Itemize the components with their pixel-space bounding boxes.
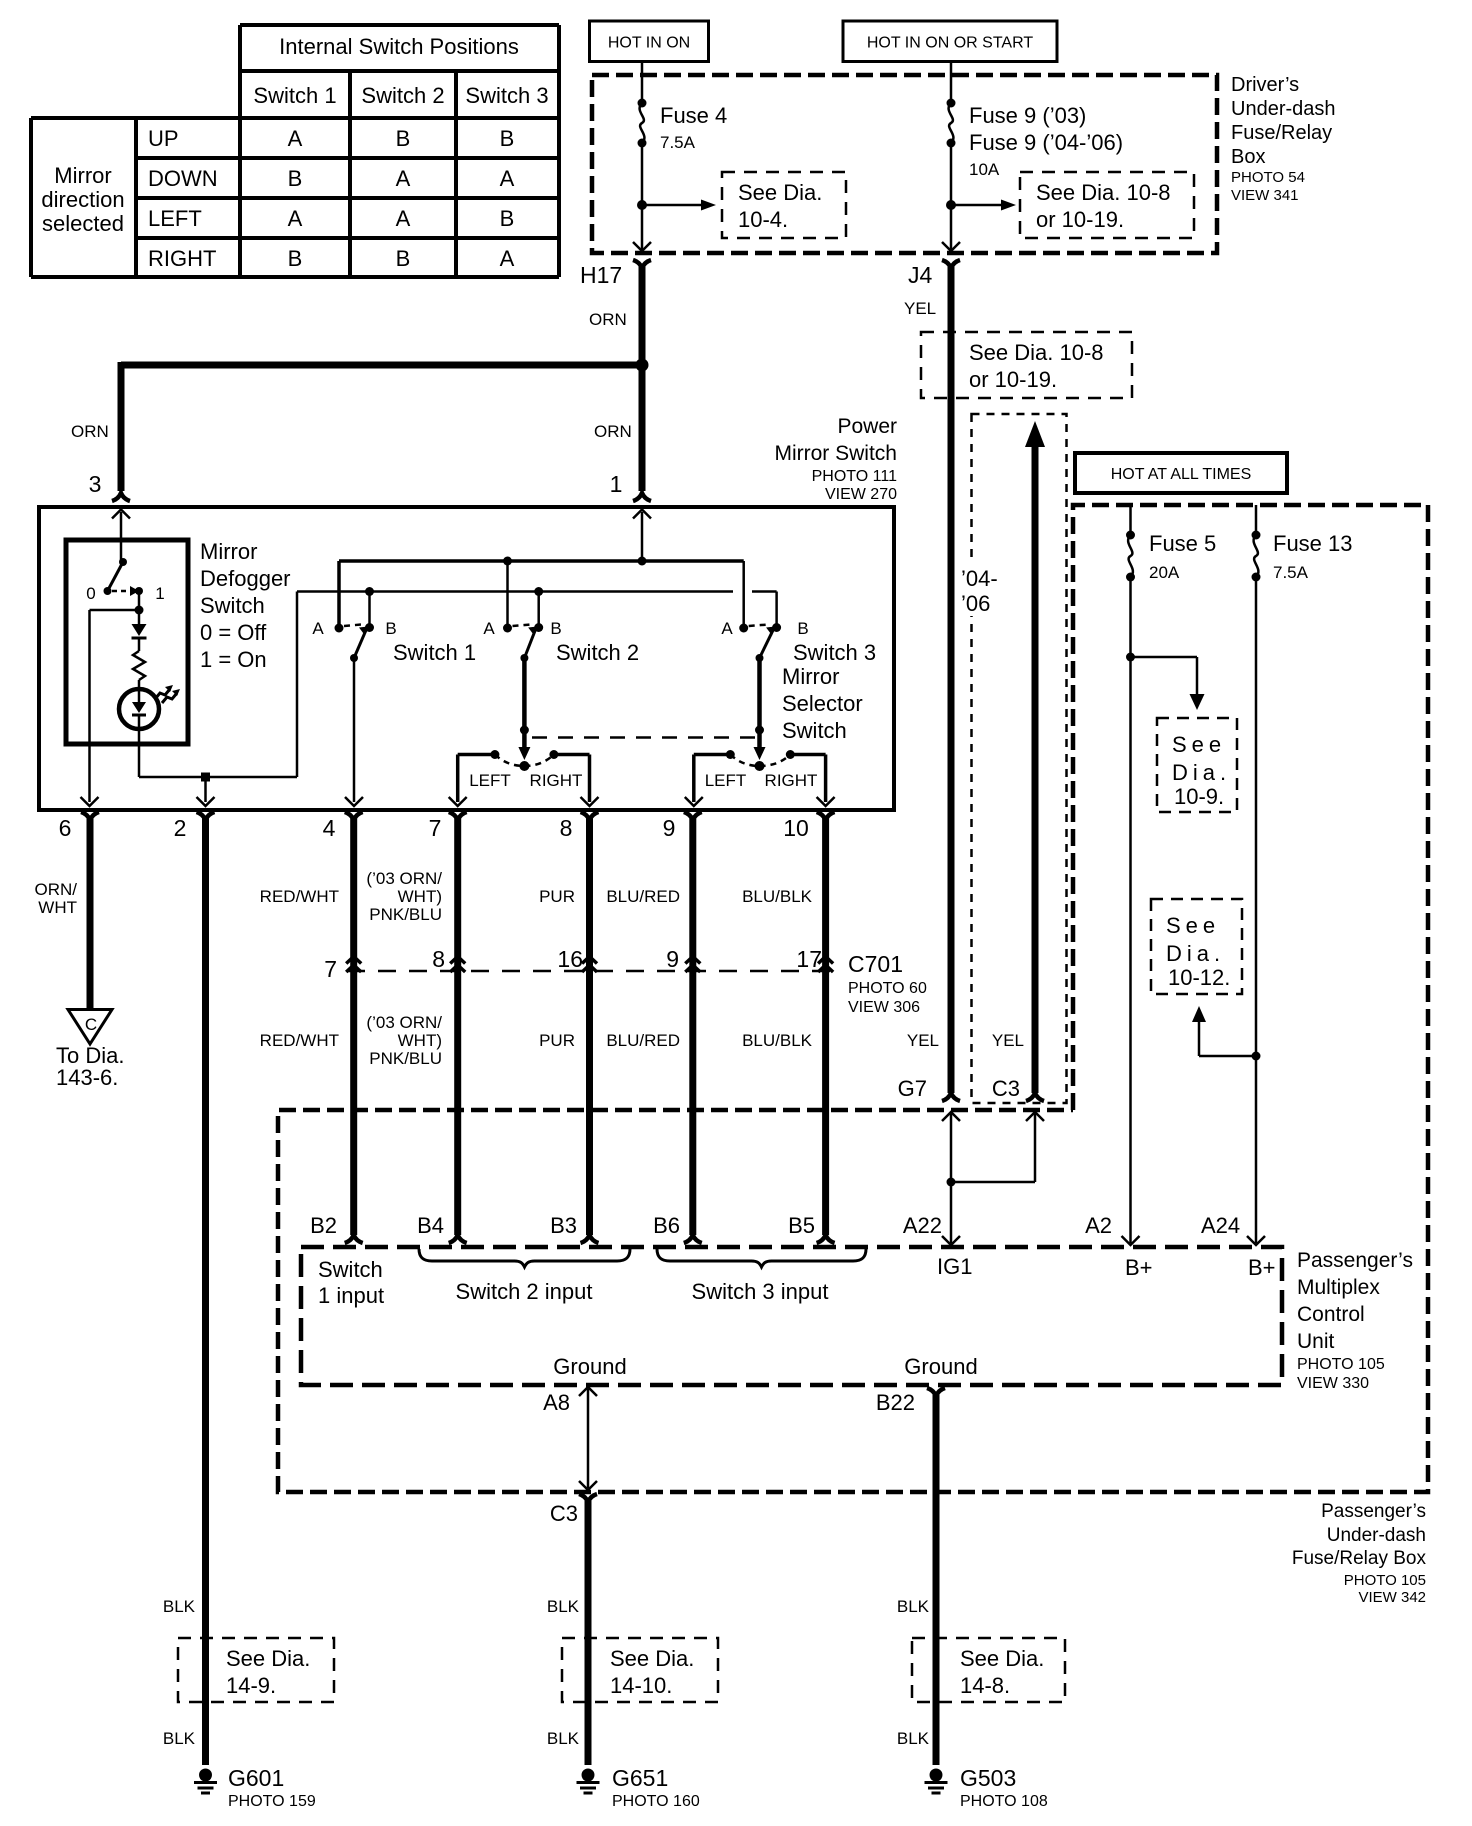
svg-text:PHOTO 160: PHOTO 160 [612,1793,700,1810]
svg-text:See: See [1166,913,1220,938]
svg-text:Fuse/Relay: Fuse/Relay [1231,122,1332,144]
svg-text:PHOTO 159: PHOTO 159 [228,1793,316,1810]
svg-text:Unit: Unit [1297,1330,1335,1353]
svg-text:VIEW 306: VIEW 306 [848,999,920,1016]
svg-text:B6: B6 [653,1213,680,1238]
svg-text:ORN: ORN [589,310,627,329]
svg-text:10-4.: 10-4. [738,207,788,232]
svg-text:(’03 ORN/: (’03 ORN/ [366,869,442,888]
svg-text:Control: Control [1297,1303,1365,1326]
svg-text:HOT IN ON OR START: HOT IN ON OR START [867,35,1033,52]
svg-text:Switch: Switch [782,718,847,743]
svg-text:YEL: YEL [904,299,936,318]
svg-text:LEFT: LEFT [469,771,511,790]
svg-text:Switch 3: Switch 3 [465,83,548,108]
svg-text:or 10-19.: or 10-19. [969,367,1057,392]
svg-text:B: B [288,246,303,271]
svg-text:PUR: PUR [539,1031,575,1050]
svg-text:PHOTO 111: PHOTO 111 [812,468,897,485]
svg-text:16: 16 [557,946,583,972]
svg-text:’04-: ’04- [961,566,998,591]
svg-text:LEFT: LEFT [148,206,202,231]
svg-text:PUR: PUR [539,887,575,906]
svg-text:14-10.: 14-10. [610,1673,672,1698]
svg-text:2: 2 [174,815,187,841]
svg-text:G651: G651 [612,1765,668,1791]
svg-text:Switch: Switch [200,593,265,618]
svg-text:17: 17 [796,946,822,972]
svg-text:Under-dash: Under-dash [1327,1525,1426,1546]
svg-text:VIEW 341: VIEW 341 [1231,187,1299,204]
svg-text:(’03 ORN/: (’03 ORN/ [366,1013,442,1032]
svg-text:BLU/BLK: BLU/BLK [742,887,813,906]
svg-text:See Dia.: See Dia. [738,180,822,205]
svg-text:7: 7 [429,815,442,841]
svg-text:RIGHT: RIGHT [765,771,818,790]
svg-text:Selector: Selector [782,691,863,716]
svg-text:Switch 3: Switch 3 [793,640,876,665]
svg-text:8: 8 [560,815,573,841]
svg-text:H17: H17 [580,262,622,288]
svg-text:Box: Box [1231,146,1265,168]
svg-text:Mirror: Mirror [200,539,257,564]
svg-text:Passenger’s: Passenger’s [1297,1249,1413,1272]
svg-text:Power: Power [837,415,897,438]
svg-text:Dia.: Dia. [1172,760,1231,785]
svg-text:B: B [500,206,515,231]
svg-text:143-6.: 143-6. [56,1065,118,1090]
svg-text:0 = Off: 0 = Off [200,620,267,645]
svg-text:A: A [396,166,411,191]
svg-text:WHT): WHT) [398,1031,442,1050]
svg-text:YEL: YEL [992,1031,1024,1050]
svg-text:A: A [288,206,303,231]
svg-text:BLK: BLK [547,1729,580,1748]
svg-text:10-9.: 10-9. [1174,784,1224,809]
svg-text:BLK: BLK [897,1597,930,1616]
svg-text:Fuse 9 (’04-’06): Fuse 9 (’04-’06) [969,130,1123,155]
svg-text:0: 0 [86,584,95,603]
svg-text:A22: A22 [903,1213,942,1238]
svg-text:HOT AT ALL TIMES: HOT AT ALL TIMES [1111,466,1252,483]
svg-text:B: B [288,166,303,191]
svg-text:BLK: BLK [163,1597,196,1616]
svg-text:10: 10 [783,815,809,841]
svg-text:ORN/: ORN/ [35,880,78,899]
svg-text:Ground: Ground [904,1354,977,1379]
svg-text:7: 7 [324,956,337,982]
svg-text:Under-dash: Under-dash [1231,98,1336,120]
svg-text:VIEW 330: VIEW 330 [1297,1375,1369,1392]
svg-text:Mirror: Mirror [782,664,839,689]
svg-text:See Dia. 10-8: See Dia. 10-8 [1036,180,1171,205]
svg-text:PHOTO 105: PHOTO 105 [1297,1356,1385,1373]
svg-text:’06: ’06 [961,591,990,616]
svg-text:A: A [721,619,733,638]
svg-text:Multiplex: Multiplex [1297,1276,1380,1299]
svg-text:RIGHT: RIGHT [148,246,216,271]
svg-text:B4: B4 [417,1213,444,1238]
svg-text:B: B [385,619,396,638]
svg-text:Internal Switch Positions: Internal Switch Positions [279,34,519,59]
svg-text:B: B [396,126,411,151]
svg-text:J4: J4 [908,262,933,288]
svg-text:IG1: IG1 [937,1254,972,1279]
svg-text:See Dia. 10-8: See Dia. 10-8 [969,340,1104,365]
svg-text:14-9.: 14-9. [226,1673,276,1698]
svg-text:A: A [500,166,515,191]
svg-text:PNK/BLU: PNK/BLU [369,905,442,924]
svg-text:A2: A2 [1085,1213,1112,1238]
svg-text:PNK/BLU: PNK/BLU [369,1049,442,1068]
svg-text:9: 9 [663,815,676,841]
svg-text:UP: UP [148,126,179,151]
svg-text:1: 1 [155,584,164,603]
svg-text:PHOTO 108: PHOTO 108 [960,1793,1048,1810]
svg-text:Switch 2: Switch 2 [361,83,444,108]
svg-text:RIGHT: RIGHT [530,771,583,790]
svg-text:BLK: BLK [897,1729,930,1748]
svg-text:C701: C701 [848,951,903,977]
svg-text:C3: C3 [992,1076,1020,1101]
svg-text:Fuse/Relay Box: Fuse/Relay Box [1292,1548,1427,1569]
svg-text:9: 9 [666,946,679,972]
svg-text:B+: B+ [1248,1255,1276,1280]
svg-text:YEL: YEL [907,1031,939,1050]
svg-text:direction: direction [41,187,124,212]
svg-text:7.5A: 7.5A [1273,563,1309,582]
svg-text:A: A [500,246,515,271]
svg-text:1 = On: 1 = On [200,647,267,672]
svg-text:PHOTO 60: PHOTO 60 [848,980,927,997]
svg-text:HOT IN ON: HOT IN ON [608,35,690,52]
svg-text:A24: A24 [1201,1213,1240,1238]
svg-text:1: 1 [610,471,623,497]
svg-text:3: 3 [89,471,102,497]
svg-text:Switch 2: Switch 2 [556,640,639,665]
svg-text:Ground: Ground [553,1354,626,1379]
svg-text:C: C [85,1015,97,1034]
svg-text:Switch 3 input: Switch 3 input [692,1279,829,1304]
svg-text:Switch 1: Switch 1 [393,640,476,665]
svg-text:ORN: ORN [594,422,632,441]
svg-text:Fuse 13: Fuse 13 [1273,531,1353,556]
svg-text:Switch: Switch [318,1257,383,1282]
svg-text:B2: B2 [310,1213,337,1238]
svg-text:DOWN: DOWN [148,166,218,191]
svg-text:Driver’s: Driver’s [1231,74,1299,96]
svg-text:B: B [500,126,515,151]
svg-text:A: A [396,206,411,231]
svg-text:PHOTO 54: PHOTO 54 [1231,169,1305,186]
svg-text:BLU/BLK: BLU/BLK [742,1031,813,1050]
svg-text:Fuse 4: Fuse 4 [660,103,727,128]
svg-text:WHT): WHT) [398,887,442,906]
svg-text:selected: selected [42,211,124,236]
svg-text:6: 6 [59,815,72,841]
svg-text:See Dia.: See Dia. [610,1646,694,1671]
svg-text:B: B [396,246,411,271]
svg-text:G503: G503 [960,1765,1016,1791]
svg-text:G7: G7 [898,1076,927,1101]
svg-text:PHOTO 105: PHOTO 105 [1344,1572,1426,1589]
svg-text:14-8.: 14-8. [960,1673,1010,1698]
svg-text:7.5A: 7.5A [660,133,696,152]
svg-text:Fuse 5: Fuse 5 [1149,531,1216,556]
svg-text:A: A [288,126,303,151]
svg-text:Mirror Switch: Mirror Switch [774,442,897,465]
svg-text:B+: B+ [1125,1255,1153,1280]
svg-text:VIEW 270: VIEW 270 [825,486,897,503]
svg-text:1 input: 1 input [318,1283,384,1308]
svg-text:Switch 2 input: Switch 2 input [456,1279,593,1304]
svg-text:RED/WHT: RED/WHT [260,887,339,906]
svg-text:B5: B5 [788,1213,815,1238]
svg-text:VIEW 342: VIEW 342 [1358,1589,1426,1606]
svg-text:8: 8 [432,946,445,972]
svg-text:BLU/RED: BLU/RED [606,1031,680,1050]
svg-text:LEFT: LEFT [705,771,747,790]
svg-text:Switch 1: Switch 1 [253,83,336,108]
svg-text:G601: G601 [228,1765,284,1791]
svg-text:BLU/RED: BLU/RED [606,887,680,906]
svg-text:Dia.: Dia. [1166,941,1225,966]
svg-text:Mirror: Mirror [54,163,111,188]
svg-text:See Dia.: See Dia. [226,1646,310,1671]
svg-text:C3: C3 [550,1501,578,1526]
svg-text:BLK: BLK [547,1597,580,1616]
svg-text:BLK: BLK [163,1729,196,1748]
svg-text:Defogger: Defogger [200,566,291,591]
svg-text:20A: 20A [1149,563,1180,582]
svg-text:B3: B3 [550,1213,577,1238]
svg-text:See: See [1172,732,1226,757]
svg-text:Passenger’s: Passenger’s [1321,1501,1426,1522]
svg-text:4: 4 [323,815,336,841]
svg-text:B: B [550,619,561,638]
svg-text:10A: 10A [969,160,1000,179]
svg-text:A: A [483,619,495,638]
svg-text:10-12.: 10-12. [1168,965,1230,990]
svg-text:ORN: ORN [71,422,109,441]
svg-text:B22: B22 [876,1390,915,1415]
svg-text:A8: A8 [543,1390,570,1415]
svg-text:See Dia.: See Dia. [960,1646,1044,1671]
svg-text:A: A [312,619,324,638]
svg-text:RED/WHT: RED/WHT [260,1031,339,1050]
svg-text:Fuse 9 (’03): Fuse 9 (’03) [969,103,1086,128]
svg-text:WHT: WHT [38,898,77,917]
svg-text:B: B [797,619,808,638]
svg-text:or 10-19.: or 10-19. [1036,207,1124,232]
